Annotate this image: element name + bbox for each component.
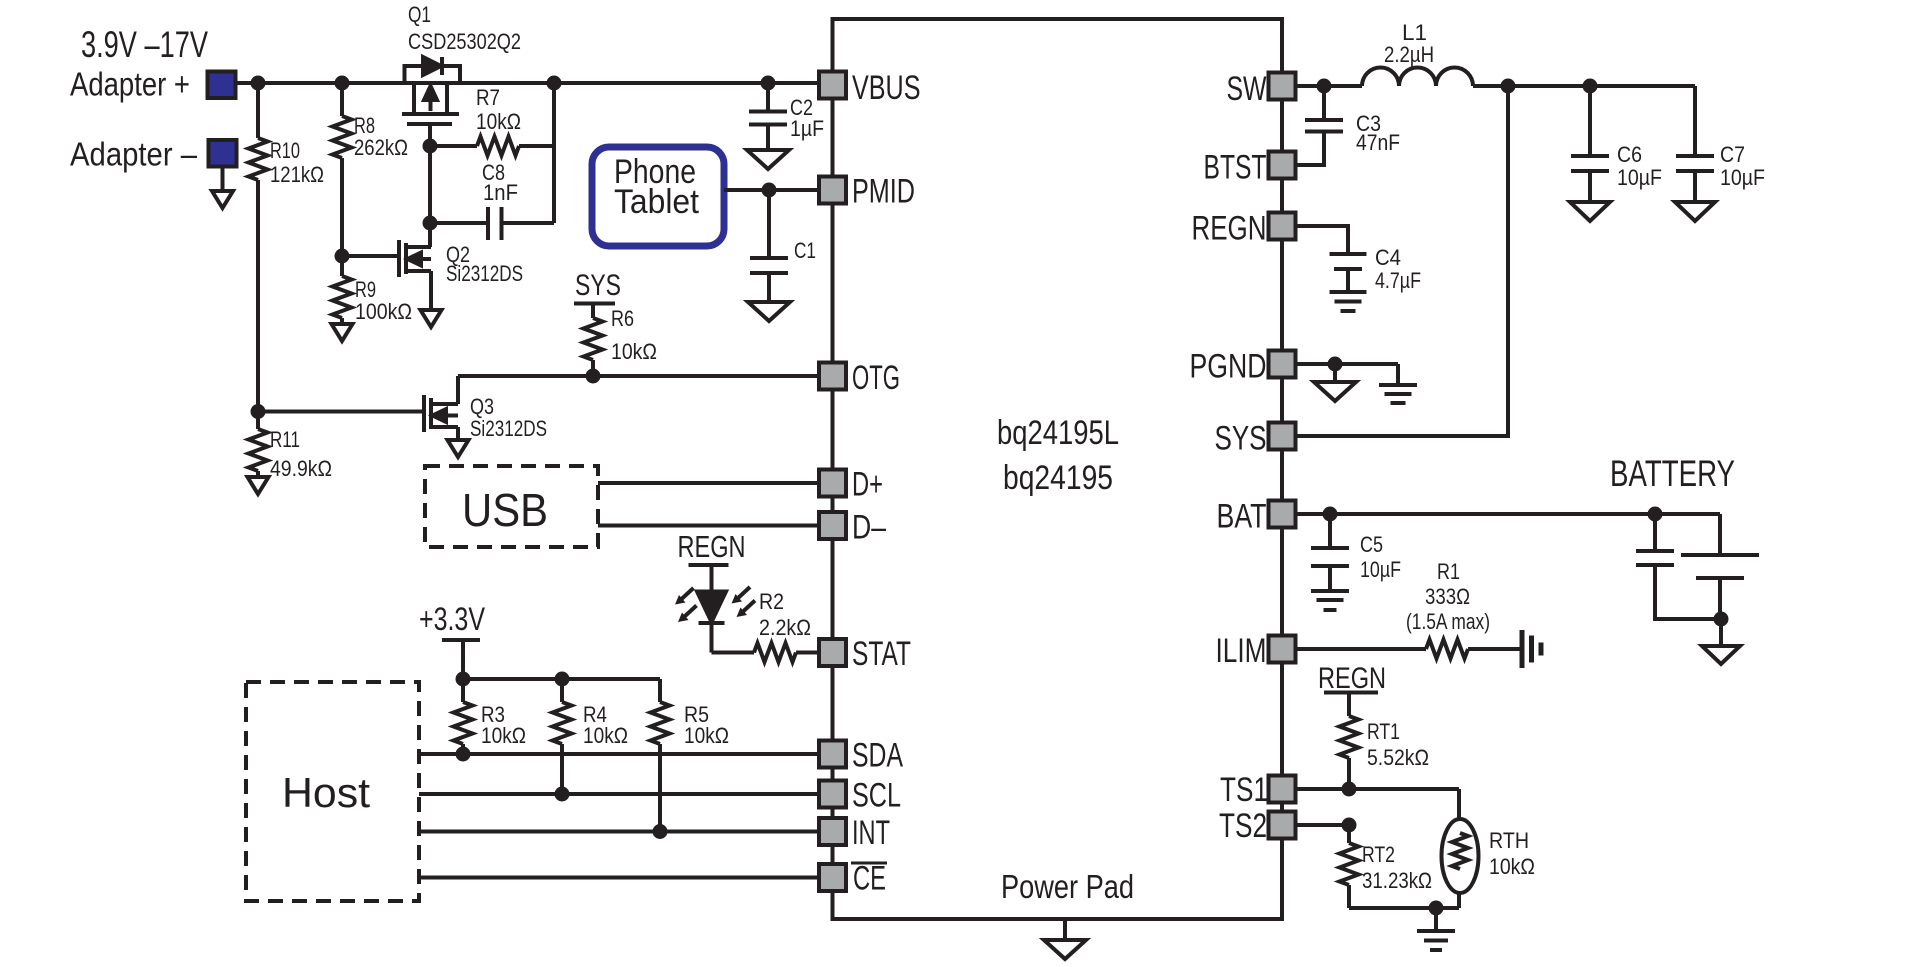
Q2 source stem bbox=[429, 271, 433, 310]
svg-text:SYS: SYS bbox=[575, 269, 621, 302]
wire C2 stem bbox=[766, 83, 770, 112]
svg-text:RT1: RT1 bbox=[1367, 719, 1400, 744]
wire C7 lower stem bbox=[1693, 171, 1697, 202]
node C5 junction bbox=[1323, 507, 1338, 522]
SYS rail bar bbox=[574, 302, 615, 306]
IC body bq24195 bbox=[833, 19, 1283, 919]
wire SCL bbox=[419, 792, 819, 796]
wire R11 lower stem bbox=[256, 471, 260, 477]
node PGND junction bbox=[1328, 357, 1343, 372]
svg-text:1nF: 1nF bbox=[483, 180, 518, 205]
pin SCL bbox=[819, 777, 901, 815]
adapter- ground arrow bbox=[212, 191, 233, 208]
pin D- bbox=[819, 509, 886, 547]
battery cell lower stem bbox=[1718, 578, 1722, 619]
svg-text:10kΩ: 10kΩ bbox=[611, 339, 657, 364]
battery pack capacitor stem bbox=[1653, 514, 1657, 551]
pin D+ bbox=[819, 466, 883, 504]
wire R6 lower stem bbox=[591, 360, 595, 376]
wire R5 top riser bbox=[658, 679, 662, 702]
Q2 body arrow shaft bbox=[414, 257, 431, 261]
wire R11 stem bbox=[256, 412, 260, 430]
svg-text:31.23kΩ: 31.23kΩ bbox=[1362, 868, 1432, 893]
resistor R7 bbox=[477, 137, 519, 156]
pin STAT bbox=[819, 635, 911, 673]
R9 ground arrow bbox=[332, 324, 353, 341]
wire PMID net bbox=[724, 188, 819, 192]
resistor R3 bbox=[454, 702, 473, 744]
wire LED to R2 bbox=[712, 651, 755, 655]
wire PGND net bbox=[1296, 362, 1398, 366]
svg-text:Si2312DS: Si2312DS bbox=[470, 416, 547, 441]
pin SW bbox=[1227, 70, 1296, 108]
svg-text:TS1: TS1 bbox=[1220, 771, 1268, 809]
wire R4 bottom stem bbox=[560, 744, 564, 794]
capacitor C2 bottom plate bbox=[749, 123, 787, 127]
PGND ground arrow bbox=[1314, 382, 1356, 401]
C7 ground arrow bbox=[1675, 202, 1715, 221]
wire adapter+ to VBUS bbox=[236, 81, 820, 85]
svg-text:STAT: STAT bbox=[852, 635, 911, 673]
svg-text:C1: C1 bbox=[794, 238, 816, 263]
battery ground arrow bbox=[1702, 646, 1740, 664]
node C3/SW junction bbox=[1317, 79, 1332, 94]
node C8 left junction bbox=[423, 216, 438, 231]
transistor Q2 drain stem bbox=[406, 223, 431, 247]
node SYS riser junction bbox=[1501, 79, 1516, 94]
svg-text:TS2: TS2 bbox=[1219, 807, 1267, 845]
wire SW to L1 bbox=[1296, 84, 1362, 88]
svg-text:REGN: REGN bbox=[1192, 210, 1267, 248]
svg-text:RT2: RT2 bbox=[1362, 842, 1395, 867]
svg-text:PMID: PMID bbox=[852, 173, 915, 211]
capacitor C2 top plate bbox=[749, 110, 787, 114]
Q1 drain leg bbox=[445, 83, 449, 112]
PGND arrow ground stem bbox=[1333, 364, 1337, 382]
node TS1 junction bbox=[1342, 782, 1357, 797]
wire R8 upper stem bbox=[340, 83, 344, 116]
svg-text:PGND: PGND bbox=[1190, 348, 1267, 386]
Q1 gate bar bbox=[407, 122, 452, 126]
Q2 body arrow head bbox=[408, 253, 422, 266]
capacitor C7 top plate bbox=[1676, 154, 1714, 158]
capacitor C1 top plate bbox=[750, 256, 788, 260]
adapter- ground stem bbox=[221, 167, 225, 192]
node R4 top junction bbox=[555, 672, 570, 687]
capacitor C1 bottom plate bbox=[750, 271, 788, 275]
svg-text:100kΩ: 100kΩ bbox=[355, 299, 412, 324]
svg-text:262kΩ: 262kΩ bbox=[354, 135, 408, 160]
Q3 gate bar bbox=[422, 395, 426, 432]
wire C6 lower stem bbox=[1588, 171, 1592, 202]
wire Q1 gate to C8 bbox=[428, 146, 432, 223]
battery pack capacitor lower stem bbox=[1655, 565, 1721, 619]
svg-text:CSD25302Q2: CSD25302Q2 bbox=[408, 29, 521, 54]
wire R4 top stem bbox=[560, 679, 564, 702]
wire R7 left bbox=[430, 144, 477, 148]
Q1 gate stem bbox=[428, 124, 432, 146]
thermistor RTH ellipse bbox=[1442, 819, 1479, 893]
wire R5 bottom stem bbox=[658, 744, 662, 832]
node R6/OTG junction bbox=[586, 369, 601, 384]
PGND earth ground bbox=[1379, 385, 1417, 403]
thermistor RTH zigzag bbox=[1452, 833, 1468, 869]
wire OTG net bbox=[458, 374, 819, 378]
wire C8 right bbox=[502, 221, 555, 225]
svg-text:CE: CE bbox=[853, 860, 886, 898]
svg-text:121kΩ: 121kΩ bbox=[270, 162, 324, 187]
wire INT bbox=[419, 830, 819, 834]
Q3 channel bar bbox=[429, 398, 433, 429]
battery cell positive plate bbox=[1681, 553, 1759, 557]
resistor R6 bbox=[584, 318, 603, 360]
transistor Q3 drain riser bbox=[456, 376, 460, 404]
Q1 source leg bbox=[412, 83, 416, 112]
wire REGN pin to C4 bbox=[1296, 226, 1348, 254]
svg-text:REGN: REGN bbox=[678, 529, 746, 564]
svg-text:bq24195L: bq24195L bbox=[997, 414, 1119, 452]
terminal Adapter- bbox=[209, 140, 237, 167]
svg-text:R10: R10 bbox=[270, 138, 300, 163]
R1 sideways earth ground bbox=[1522, 630, 1541, 668]
svg-text:REGN: REGN bbox=[1318, 662, 1386, 695]
pin SDA bbox=[819, 737, 903, 775]
wire TS2 bbox=[1296, 823, 1349, 827]
pin VBUS bbox=[819, 69, 921, 107]
svg-text:10µF: 10µF bbox=[1617, 165, 1662, 190]
wire C4 lower stem bbox=[1346, 269, 1350, 292]
svg-text:1µF: 1µF bbox=[790, 116, 824, 141]
resistor R5 bbox=[651, 702, 670, 744]
R11 ground arrow bbox=[248, 477, 269, 494]
wire R1 to ground bbox=[1468, 647, 1520, 651]
svg-text:R11: R11 bbox=[270, 427, 300, 452]
Q1 body diode anode triangle bbox=[423, 57, 441, 75]
node TS2 junction bbox=[1342, 818, 1357, 833]
node RT ground junction bbox=[1429, 901, 1444, 916]
Q2 ground arrow bbox=[421, 310, 442, 327]
svg-text:10kΩ: 10kΩ bbox=[583, 723, 628, 748]
svg-text:C5: C5 bbox=[1360, 532, 1383, 557]
wire CE bbox=[419, 876, 819, 880]
power pad ground stem bbox=[1063, 919, 1067, 940]
LED light arrow 2 bbox=[684, 606, 697, 618]
wire R3 bottom stem bbox=[461, 744, 465, 754]
Q1 channel arrow shaft bbox=[429, 95, 433, 111]
Q3 body arrow head bbox=[433, 409, 447, 422]
capacitor C6 top plate bbox=[1571, 154, 1609, 158]
capacitor C4 top plate bbox=[1330, 252, 1367, 256]
Q1 channel bar bbox=[402, 112, 459, 116]
node R11/Q3 gate junction bbox=[251, 404, 266, 419]
svg-text:10kΩ: 10kΩ bbox=[476, 109, 521, 134]
capacitor C5 bottom plate bbox=[1311, 564, 1349, 568]
pin ILIM bbox=[1216, 632, 1296, 670]
Host dashed box bbox=[246, 682, 419, 901]
Q3 ground arrow bbox=[448, 440, 469, 457]
svg-text:BAT: BAT bbox=[1217, 498, 1267, 536]
capacitor C3 top plate bbox=[1305, 118, 1343, 122]
wire R7/C8 right riser bbox=[552, 83, 556, 223]
C1 ground arrow bbox=[748, 302, 790, 321]
transistor Q1 body diode loop bbox=[405, 66, 461, 83]
svg-text:Q1: Q1 bbox=[408, 2, 431, 27]
node R3/SDA junction bbox=[456, 747, 471, 762]
wire R10 to Q3 gate rail bbox=[256, 180, 260, 412]
battery cell riser bbox=[1718, 514, 1722, 555]
svg-text:R2: R2 bbox=[759, 589, 784, 614]
pin CE with overline bbox=[819, 860, 887, 898]
RT ground stem bbox=[1434, 908, 1438, 931]
wire SYS to R6 bbox=[591, 304, 595, 319]
wire C3 to BTST bbox=[1296, 132, 1324, 166]
LED cathode bar bbox=[699, 621, 725, 625]
wire D- bbox=[598, 524, 819, 528]
pin SYS bbox=[1215, 420, 1296, 458]
C6 ground arrow bbox=[1570, 202, 1610, 221]
Q3 source stub bbox=[431, 425, 458, 429]
resistor R2 bbox=[754, 643, 796, 662]
node C6 junction bbox=[1583, 79, 1598, 94]
svg-text:SDA: SDA bbox=[852, 737, 903, 775]
wire TS1 bbox=[1296, 787, 1459, 791]
resistor R4 bbox=[553, 702, 572, 744]
wire C1 lower stem bbox=[767, 273, 771, 302]
svg-text:USB: USB bbox=[462, 484, 548, 536]
node C1/PMID junction bbox=[762, 183, 777, 198]
wire C2 lower stem bbox=[766, 125, 770, 151]
wire D+ bbox=[598, 481, 819, 485]
wire R9 lower stem bbox=[340, 318, 344, 324]
wire C5 lower stem bbox=[1328, 566, 1332, 591]
battery ground stem bbox=[1719, 619, 1723, 646]
LED light arrow 1 bbox=[681, 588, 694, 600]
Q3 source stem bbox=[456, 427, 460, 440]
C4 earth ground bbox=[1330, 292, 1367, 311]
wire REGN to LED bbox=[710, 565, 714, 594]
thermistor RTH riser bottom bbox=[1457, 893, 1461, 908]
svg-text:C6: C6 bbox=[1617, 142, 1642, 167]
svg-text:10kΩ: 10kΩ bbox=[481, 723, 526, 748]
svg-text:bq24195: bq24195 bbox=[1003, 459, 1113, 497]
capacitor C8 right plate bbox=[500, 207, 504, 240]
svg-text:Si2312DS: Si2312DS bbox=[446, 261, 523, 286]
svg-text:47nF: 47nF bbox=[1356, 130, 1400, 155]
REGN rail bar bbox=[689, 563, 729, 567]
wire +3.3V stem bbox=[461, 640, 465, 679]
Q3 drain stub bbox=[431, 402, 458, 406]
svg-text:R7: R7 bbox=[476, 85, 500, 110]
resistor RT1 bbox=[1340, 716, 1359, 758]
capacitor C4 bottom plate bbox=[1334, 267, 1362, 271]
svg-text:R1: R1 bbox=[1437, 559, 1460, 584]
node adapter/R10 junction bbox=[251, 76, 266, 91]
wire R8 to Q2 gate junction bbox=[340, 158, 344, 276]
wire TS2 to RT2 bbox=[1347, 825, 1351, 843]
RT earth ground bbox=[1417, 931, 1455, 950]
capacitor C7 riser bbox=[1693, 86, 1697, 156]
node R3 top junction bbox=[456, 672, 471, 687]
node Q2 gate junction bbox=[335, 249, 350, 264]
svg-text:ILIM: ILIM bbox=[1216, 632, 1267, 670]
Q3 gate wire from R11 node bbox=[258, 410, 424, 414]
REGN thermistor rail bar bbox=[1324, 691, 1378, 695]
battery pack capacitor top plate bbox=[1636, 549, 1674, 553]
svg-text:VBUS: VBUS bbox=[852, 69, 921, 107]
svg-text:10µF: 10µF bbox=[1360, 557, 1401, 582]
svg-text:SW: SW bbox=[1227, 70, 1267, 108]
wire RT2 to RTH bottom bbox=[1349, 906, 1459, 910]
wire R7 right bbox=[519, 144, 554, 148]
Q2 channel bar bbox=[404, 243, 408, 274]
wire C8 left bbox=[430, 221, 488, 225]
PGND earth riser bbox=[1396, 364, 1400, 385]
wire pullup rail bbox=[463, 677, 660, 681]
node R4/SCL junction bbox=[555, 787, 570, 802]
capacitor C5 top plate bbox=[1311, 546, 1349, 550]
wire LED cathode stem bbox=[710, 623, 714, 653]
wire C3 stem bbox=[1322, 86, 1326, 120]
LED light arrow 3 bbox=[738, 587, 751, 599]
svg-text:333Ω: 333Ω bbox=[1425, 584, 1470, 609]
pin PGND bbox=[1190, 348, 1296, 386]
pin TS1 bbox=[1220, 771, 1296, 809]
node battery bottom junction bbox=[1714, 612, 1729, 627]
wire SDA bbox=[419, 752, 819, 756]
wire SYS net bbox=[1296, 86, 1508, 436]
Phone/Tablet box bbox=[592, 147, 724, 246]
LED light arrow 4 bbox=[743, 601, 756, 613]
node Q1 gate / R7 junction bbox=[423, 139, 438, 154]
resistor R8 bbox=[333, 116, 352, 158]
pin TS2 bbox=[1219, 807, 1296, 845]
capacitor C3 bottom plate bbox=[1305, 130, 1343, 134]
svg-text:Host: Host bbox=[282, 769, 370, 816]
svg-text:10µF: 10µF bbox=[1720, 165, 1765, 190]
Q1 body diode cathode bar bbox=[440, 57, 444, 75]
thermistor RTH riser top bbox=[1457, 789, 1461, 819]
svg-text:49.9kΩ: 49.9kΩ bbox=[270, 456, 332, 481]
svg-text:Power Pad: Power Pad bbox=[1001, 868, 1134, 905]
battery pack capacitor bottom plate bbox=[1636, 563, 1674, 567]
Q2 gate wire bbox=[342, 254, 399, 258]
wire REGN to RT1 bbox=[1347, 693, 1351, 717]
pin BAT bbox=[1217, 498, 1296, 536]
node battery junction bbox=[1648, 507, 1663, 522]
C5 earth ground bbox=[1311, 591, 1349, 610]
capacitor C7 bottom plate bbox=[1676, 169, 1714, 173]
svg-text:C7: C7 bbox=[1720, 142, 1745, 167]
wire ILIM to R1 bbox=[1296, 647, 1426, 651]
C2 ground arrow bbox=[747, 150, 789, 169]
svg-text:BTST: BTST bbox=[1204, 149, 1267, 187]
svg-text:+3.3V: +3.3V bbox=[419, 601, 486, 637]
resistor RT2 bbox=[1340, 843, 1359, 885]
pin BTST bbox=[1204, 149, 1296, 187]
svg-text:R6: R6 bbox=[611, 306, 634, 331]
svg-text:3.9V –17V: 3.9V –17V bbox=[81, 24, 208, 65]
pin OTG bbox=[819, 359, 900, 397]
wire RT2 lower stem bbox=[1347, 885, 1351, 908]
svg-text:5.52kΩ: 5.52kΩ bbox=[1367, 745, 1429, 770]
USB dashed box bbox=[425, 466, 598, 547]
capacitor C8 left plate bbox=[486, 207, 490, 240]
battery cell negative plate bbox=[1696, 576, 1744, 580]
svg-text:OTG: OTG bbox=[852, 359, 900, 397]
pin REGN bbox=[1192, 210, 1296, 248]
svg-text:(1.5A max): (1.5A max) bbox=[1406, 609, 1490, 634]
wire C5 stem bbox=[1328, 514, 1332, 548]
Q2 gate bar bbox=[397, 240, 401, 277]
Q3 body arrow shaft bbox=[439, 414, 458, 418]
svg-text:4.7µF: 4.7µF bbox=[1375, 268, 1421, 293]
wire R10 upper stem bbox=[256, 83, 260, 138]
inductor L1 bbox=[1362, 68, 1473, 87]
svg-text:INT: INT bbox=[852, 814, 890, 852]
node C2 junction bbox=[761, 76, 776, 91]
terminal Adapter+ bbox=[208, 72, 236, 99]
resistor R10 bbox=[249, 138, 268, 180]
svg-text:Adapter –: Adapter – bbox=[70, 136, 198, 173]
node R8 junction bbox=[335, 76, 350, 91]
svg-text:2.2kΩ: 2.2kΩ bbox=[759, 615, 811, 640]
wire R2 to STAT bbox=[796, 651, 819, 655]
power pad ground arrow bbox=[1044, 940, 1086, 959]
Q2 source stub bbox=[406, 269, 431, 273]
resistor R11 bbox=[249, 429, 268, 471]
pin PMID bbox=[819, 173, 915, 211]
Q1 channel arrow head bbox=[424, 86, 437, 100]
capacitor C6 bottom plate bbox=[1571, 169, 1609, 173]
wire R3 top stem bbox=[461, 679, 465, 702]
svg-text:SCL: SCL bbox=[852, 777, 901, 815]
wire C1 stem bbox=[767, 190, 771, 258]
resistor R1 bbox=[1426, 640, 1468, 659]
svg-text:2.2µH: 2.2µH bbox=[1384, 42, 1434, 67]
wire BAT net bbox=[1296, 512, 1720, 516]
svg-text:RTH: RTH bbox=[1489, 828, 1529, 853]
wire C6 stem bbox=[1588, 86, 1592, 156]
svg-text:C4: C4 bbox=[1375, 245, 1401, 270]
svg-text:BATTERY: BATTERY bbox=[1610, 453, 1735, 494]
wire RT1 to TS1 bbox=[1347, 758, 1351, 789]
+3.3V rail bar bbox=[442, 638, 480, 642]
svg-text:10kΩ: 10kΩ bbox=[1489, 854, 1535, 879]
resistor R9 bbox=[333, 276, 352, 318]
wire L1 to C7 bbox=[1473, 84, 1695, 88]
svg-text:Tablet: Tablet bbox=[614, 183, 700, 221]
svg-text:D+: D+ bbox=[852, 466, 883, 504]
svg-text:D–: D– bbox=[852, 509, 886, 547]
pin INT bbox=[819, 814, 890, 852]
LED D1 anode triangle bbox=[697, 592, 726, 623]
svg-text:SYS: SYS bbox=[1215, 420, 1267, 458]
svg-text:10kΩ: 10kΩ bbox=[684, 723, 729, 748]
node R7/C8 top junction bbox=[547, 76, 562, 91]
node R5/INT junction bbox=[653, 824, 668, 839]
svg-text:Adapter +: Adapter + bbox=[70, 66, 190, 103]
